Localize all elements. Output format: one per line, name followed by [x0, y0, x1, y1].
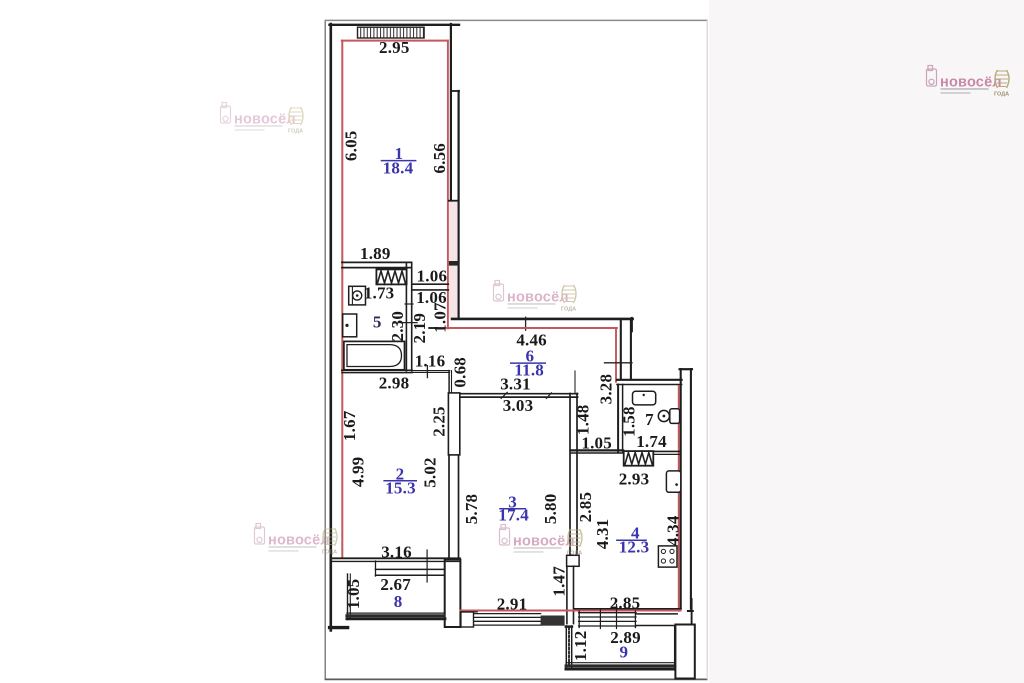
svg-text:2.67: 2.67 — [380, 575, 411, 594]
node dim tick 2.30-2.19 — [400, 322, 417, 324]
svg-text:1.16: 1.16 — [415, 352, 446, 371]
wall chunk room3-9 — [541, 616, 565, 626]
svg-text:5.02: 5.02 — [421, 457, 440, 488]
watermark center — [494, 281, 577, 313]
doorway block rooms2-3 — [448, 393, 459, 455]
wall room3 right lower line1 — [566, 566, 568, 623]
watermark top-right — [927, 66, 1010, 98]
bathtub — [344, 341, 405, 369]
sink room5 — [343, 314, 357, 337]
wall bathroom bottom line1 — [342, 369, 412, 371]
corner piece kitchen bottom right — [688, 610, 693, 612]
svg-text:9: 9 — [620, 642, 629, 661]
wall room7 left line1 — [617, 385, 619, 453]
wall corridor bottom line2 — [571, 452, 623, 454]
wall corridor bottom line1 — [571, 449, 623, 451]
node slash tick a — [501, 392, 507, 398]
junction mark y260 — [449, 261, 459, 266]
svg-text:2.25: 2.25 — [429, 406, 448, 437]
svg-text:4.34: 4.34 — [663, 515, 682, 546]
window W3 room3 bottom — [474, 614, 541, 626]
wire red inner right room1 — [447, 41, 449, 329]
balcony9 left wall — [565, 626, 567, 670]
wire left outer wall — [329, 24, 332, 631]
wall rooms2-3 below door line1 — [448, 455, 450, 558]
wire outer wall right of hall line1 — [620, 319, 622, 379]
small column room3 bottom — [461, 612, 474, 627]
wall room3 top line1 — [460, 393, 578, 395]
wire hall top wall — [452, 318, 633, 321]
svg-text:1.05: 1.05 — [344, 579, 363, 610]
building bottom-left cap — [330, 626, 348, 629]
svg-text:8: 8 — [394, 592, 403, 611]
watermark bottom-center — [500, 525, 583, 557]
svg-text:2.85: 2.85 — [576, 492, 595, 523]
window W1 room1 top — [358, 27, 425, 38]
svg-text:0.68: 0.68 — [451, 357, 470, 388]
node slash tick b — [546, 393, 551, 399]
wall rooms2-3 above door line1 — [448, 371, 450, 394]
svg-text:1.74: 1.74 — [636, 432, 667, 451]
black line room3 bottom left — [461, 611, 478, 613]
wall bathroom bottom line2 — [342, 372, 412, 374]
watermark bottom-left — [255, 524, 338, 556]
fridge kitchen — [666, 471, 680, 492]
door line 1.16 — [412, 370, 449, 372]
balcony8 left inner wall — [347, 574, 349, 620]
svg-text:5.80: 5.80 — [541, 494, 560, 525]
wire neighbour wall line — [458, 91, 460, 319]
svg-text:2.30: 2.30 — [388, 311, 407, 342]
right wall lower bit — [691, 599, 693, 625]
wire red inner top room1 — [342, 40, 448, 42]
wall room3 right lower line2 — [573, 566, 575, 623]
black line above kitchen window — [574, 608, 681, 610]
svg-text:1.07: 1.07 — [431, 302, 450, 333]
svg-text:12.3: 12.3 — [619, 538, 650, 557]
window W2 room2 bottom — [376, 550, 445, 582]
wire room1 right wall upper — [450, 24, 452, 201]
svg-text:3.16: 3.16 — [381, 543, 412, 562]
wall bathroom top line2 — [342, 267, 412, 269]
toilet room7 — [658, 410, 669, 421]
wall room2 bottom line1 — [331, 557, 460, 559]
window W4 kitchen bottom — [579, 605, 636, 629]
svg-text:6.56: 6.56 — [430, 143, 449, 174]
svg-text:3.28: 3.28 — [597, 374, 616, 405]
node dim tick 3.28 — [605, 362, 633, 364]
sink room7 — [633, 391, 656, 405]
svg-text:4.31: 4.31 — [593, 519, 612, 550]
wire red inner right outer wall — [678, 386, 680, 611]
svg-text:2.91: 2.91 — [497, 594, 528, 613]
svg-text:1.89: 1.89 — [360, 244, 391, 263]
svg-text:1.47: 1.47 — [549, 566, 568, 597]
wall rooms2-3 below door line2 — [458, 455, 460, 558]
wire dim extension x575 — [574, 371, 576, 393]
watermark top-left — [221, 103, 304, 135]
wall bathroom right line2 — [411, 262, 413, 371]
balcony9 right wall — [674, 627, 676, 670]
wall rooms2-3 above door line2 — [451, 371, 453, 394]
svg-text:2.95: 2.95 — [379, 38, 410, 57]
svg-text:3.03: 3.03 — [503, 396, 534, 415]
vent shaft hatch bathroom — [376, 269, 406, 284]
svg-text:18.4: 18.4 — [383, 159, 414, 178]
svg-text:15.3: 15.3 — [385, 479, 416, 498]
svg-text:2.93: 2.93 — [619, 469, 650, 488]
wall room2 bottom line2 — [331, 560, 460, 562]
wall right of vent — [653, 450, 680, 452]
joint box wall3-4 — [567, 555, 580, 566]
right outer wall top cap — [680, 368, 692, 370]
node dim tick hall top — [525, 317, 527, 330]
svg-text:1.12: 1.12 — [571, 631, 590, 662]
svg-text:17.4: 17.4 — [498, 506, 529, 525]
svg-text:5: 5 — [373, 312, 382, 331]
wall room3 right upper line2 — [576, 394, 578, 557]
vent shaft hatch kitchen — [624, 451, 654, 466]
pink wall wash right of room1 — [449, 201, 457, 318]
balcony8 floor band — [347, 612, 445, 614]
svg-text:1.05: 1.05 — [581, 433, 612, 452]
wall room3 right upper line1 — [569, 394, 571, 557]
page border frame — [325, 20, 708, 680]
balcony9 floor band — [566, 662, 677, 664]
svg-text:7: 7 — [645, 410, 654, 429]
node tick 1.16 — [426, 366, 428, 378]
partition 1.06 line2 — [412, 289, 448, 291]
svg-text:6.05: 6.05 — [341, 131, 360, 162]
right outer wall line2 — [690, 369, 692, 609]
wall room7 left line2 — [622, 385, 624, 453]
right outer wall line1 — [680, 369, 682, 609]
wire black tick left of red corner — [429, 327, 437, 329]
svg-text:5.78: 5.78 — [462, 494, 481, 525]
bottom-right pillar — [675, 625, 694, 679]
wire red inner left — [341, 41, 343, 558]
wall chunk kitchen bottom right — [636, 613, 677, 615]
svg-text:1.06: 1.06 — [417, 267, 448, 286]
wall room7 top line1 — [617, 379, 682, 381]
wire hall top right tick — [631, 318, 633, 331]
svg-text:2.85: 2.85 — [610, 594, 641, 613]
svg-text:2.19: 2.19 — [410, 313, 429, 344]
corner pillar rooms2-3-8 — [445, 560, 461, 627]
svg-text:2.98: 2.98 — [379, 374, 410, 393]
svg-text:1.48: 1.48 — [574, 405, 593, 436]
washing machine — [349, 286, 366, 305]
svg-text:1.67: 1.67 — [340, 410, 359, 441]
wire top outer wall — [330, 24, 460, 26]
wire outer wall right of hall line2 — [630, 319, 632, 379]
partition 1.06 line1 — [412, 283, 448, 285]
wall room7 top line2 — [617, 384, 682, 386]
stove kitchen — [658, 546, 677, 567]
wall bathroom right line1 — [405, 262, 407, 371]
svg-text:3.31: 3.31 — [500, 375, 531, 394]
wall room3 top line2 — [460, 396, 578, 398]
wire jut y91 — [451, 90, 459, 92]
wire red hall top — [445, 327, 617, 329]
wire red hall right — [615, 328, 617, 382]
node tick bathroom wall — [405, 303, 413, 305]
svg-text:4.99: 4.99 — [349, 457, 368, 488]
svg-text:1.73: 1.73 — [364, 284, 395, 303]
red room3-4 bottom — [461, 610, 681, 612]
balcony9 top-left corner — [566, 625, 572, 627]
wall bathroom top line1 — [342, 261, 412, 263]
wire jut y200 — [449, 200, 459, 202]
